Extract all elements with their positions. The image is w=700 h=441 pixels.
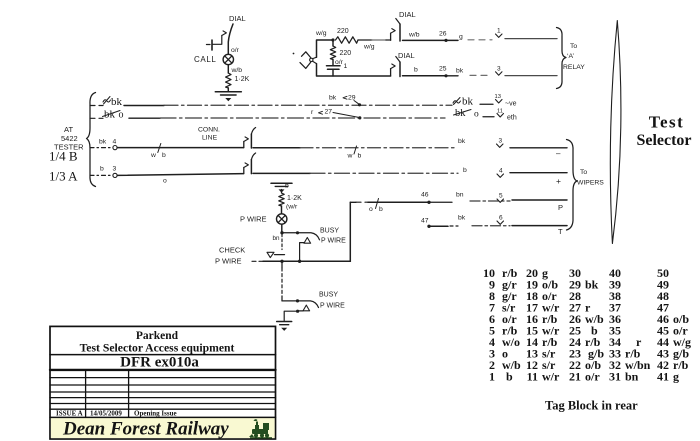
left brace AT 5422 TESTER	[87, 93, 96, 187]
lamp CALL	[223, 54, 233, 64]
row D left dashes	[90, 174, 111, 176]
row C left dashes	[90, 147, 111, 149]
svg-text:bk: bk	[99, 139, 107, 146]
svg-text:P: P	[558, 203, 563, 212]
wire to A-relay brace (row 1)	[505, 38, 557, 40]
svg-text:P WIRE: P WIRE	[215, 257, 242, 266]
svg-text:o/r: o/r	[335, 59, 344, 66]
svg-text:11: 11	[497, 109, 503, 115]
row D wire to conn-line switch	[117, 174, 243, 176]
svg-text:3: 3	[499, 138, 503, 145]
svg-text:bk: bk	[462, 96, 474, 108]
conn-line switch (row D)	[243, 168, 245, 174]
label w/b mid row C	[354, 146, 357, 154]
svg-text:Opening Issue: Opening Issue	[134, 409, 177, 417]
row B left dashes	[90, 117, 103, 119]
dashes to relay terminal 3	[470, 74, 492, 76]
svg-text:g: g	[673, 369, 679, 383]
brace to A relay	[557, 28, 567, 89]
svg-text:Selector: Selector	[636, 132, 691, 149]
row C terminal	[113, 146, 117, 150]
dashes to relay terminal 1	[468, 39, 492, 41]
wire lamp to resistor	[227, 65, 229, 73]
svg-text:Test Selector Access equipment: Test Selector Access equipment	[80, 342, 235, 355]
label o/b	[376, 199, 379, 209]
svg-text:P WIRE: P WIRE	[320, 303, 345, 310]
svg-text:21: 21	[569, 369, 581, 383]
row F wire to wipers brace	[512, 225, 567, 227]
title block frame	[50, 326, 276, 439]
page arc	[610, 21, 621, 244]
svg-text:~ve: ~ve	[505, 101, 517, 108]
svg-text:b: b	[414, 67, 418, 74]
svg-text:26: 26	[439, 31, 447, 38]
title block lines	[50, 354, 276, 356]
svg-text:220: 220	[337, 28, 349, 35]
svg-text:(w/r: (w/r	[286, 204, 298, 211]
svg-text:CALL: CALL	[194, 55, 216, 64]
svg-text:11: 11	[527, 369, 538, 383]
svg-text:w/g: w/g	[315, 30, 327, 37]
stray mark	[293, 53, 295, 55]
resistor 1.2K (p-wire)	[279, 193, 284, 206]
riser from check line to row E	[349, 202, 351, 261]
svg-text:b: b	[506, 369, 513, 383]
svg-text:DFR ex010a: DFR ex010a	[120, 354, 199, 370]
svg-text:‘A’: ‘A’	[567, 53, 575, 60]
svg-text:P WIRE: P WIRE	[321, 238, 346, 245]
lamp P WIRE	[277, 214, 287, 224]
svg-text:1·2K: 1·2K	[287, 195, 302, 202]
resistor 1.2K (call branch)	[226, 73, 231, 88]
svg-text:w/b: w/b	[231, 67, 243, 74]
svg-text:Tag Block in rear: Tag Block in rear	[545, 399, 638, 413]
svg-text:25: 25	[439, 66, 447, 73]
svg-text:WIPERS: WIPERS	[577, 180, 604, 187]
svg-text:3: 3	[497, 66, 501, 73]
svg-text:b: b	[162, 152, 166, 159]
svg-text:41: 41	[657, 369, 669, 383]
svg-text:Dean Forest Railway: Dean Forest Railway	[62, 419, 229, 440]
svg-text:bn: bn	[273, 235, 281, 242]
row B tail	[483, 116, 494, 118]
svg-text:5: 5	[499, 193, 503, 200]
row A wire	[124, 105, 164, 107]
row E wire right	[429, 201, 452, 203]
svg-text:1/3 A: 1/3 A	[49, 169, 78, 184]
svg-text:1: 1	[497, 28, 501, 35]
svg-text:bk: bk	[585, 277, 599, 291]
brace to wipers	[567, 140, 578, 231]
svg-text:4: 4	[499, 168, 503, 175]
svg-text:DIAL: DIAL	[229, 14, 246, 23]
row D wire to wipers brace	[510, 172, 567, 174]
wire resistor to lamp	[281, 206, 283, 214]
capacitor 1	[332, 60, 334, 66]
row A left dashes	[90, 105, 103, 107]
row A label bk (scribbled)	[103, 97, 111, 105]
svg-text:bn: bn	[625, 369, 639, 383]
busy p-wire contact (lower) blade	[282, 300, 297, 302]
busy p-wire contact (upper) fixed	[304, 238, 311, 244]
train logo	[249, 419, 272, 438]
svg-text:4: 4	[113, 139, 117, 146]
svg-text:LINE: LINE	[202, 135, 218, 142]
row C wire to conn-line switch	[117, 147, 243, 149]
svg-text:bk: bk	[111, 96, 123, 108]
wire contact2 to terminal 25	[403, 75, 447, 77]
svg-text:To: To	[570, 43, 577, 50]
svg-text:27: 27	[325, 109, 333, 116]
check p-wire horizontal line	[252, 260, 263, 262]
wire contact1 to terminal 26	[403, 39, 447, 41]
row E wire	[350, 201, 356, 203]
svg-text:DIAL: DIAL	[399, 10, 416, 19]
vertical wire down to lower busy contact	[281, 261, 283, 268]
svg-text:47: 47	[421, 218, 429, 225]
row C wire to wipers brace	[510, 147, 567, 149]
row D wire after switch	[253, 172, 310, 174]
dial contact 2 blade	[390, 69, 392, 76]
junction bn	[280, 231, 283, 234]
node junction	[331, 38, 334, 41]
svg-text:To: To	[580, 169, 587, 176]
ground (p-wire branch)	[271, 182, 292, 184]
svg-text:ISSUE A: ISSUE A	[56, 409, 83, 417]
wire resistor to ground	[227, 88, 229, 92]
svg-text:bk: bk	[456, 68, 464, 75]
svg-text:RELAY: RELAY	[563, 64, 585, 71]
dial contact 2 bar	[399, 62, 401, 77]
wire: dial key riser to lamp	[228, 24, 233, 55]
svg-text:31: 31	[609, 369, 621, 383]
wire lamp to junction	[281, 224, 283, 232]
svg-text:bk: bk	[458, 215, 466, 222]
conn-line switch (row C)	[243, 142, 245, 148]
row C wire after switch	[253, 147, 300, 149]
row E wire to wipers brace	[512, 199, 567, 201]
resistor 220 shunt	[332, 40, 334, 46]
svg-text:CONN.: CONN.	[198, 127, 220, 134]
key contact (CALL press button)	[211, 40, 213, 50]
wire transducer top to node	[317, 40, 334, 57]
svg-text:b: b	[358, 153, 362, 160]
svg-text:bn: bn	[456, 192, 464, 199]
svg-text:AT: AT	[64, 125, 73, 134]
svg-text:b: b	[379, 206, 383, 213]
svg-text:bk: bk	[458, 138, 466, 145]
row A tail	[480, 103, 493, 105]
row D terminal	[113, 173, 117, 177]
dial contact 1 blade	[390, 33, 392, 40]
busy p-wire contact (lower) fixed	[303, 305, 310, 311]
svg-text:Parkend: Parkend	[136, 330, 179, 342]
svg-text:3: 3	[113, 166, 117, 173]
dashed vertical to check contact	[281, 234, 283, 250]
wire resistor to dial contact 1	[358, 39, 372, 41]
svg-text:o: o	[474, 110, 479, 120]
svg-text:–: –	[556, 149, 561, 158]
svg-text:1/4 B: 1/4 B	[49, 149, 78, 164]
svg-text:w: w	[150, 152, 156, 159]
svg-text:1·2K: 1·2K	[235, 76, 250, 83]
resistor 220 horizontal	[336, 37, 359, 43]
svg-text:b: b	[100, 166, 104, 173]
svg-text:w: w	[347, 153, 353, 160]
svg-text:1: 1	[344, 63, 348, 70]
label w/b on row C	[158, 144, 161, 153]
svg-text:g: g	[459, 34, 463, 41]
dial contact 1 bar	[399, 24, 401, 41]
svg-text:Test: Test	[649, 113, 685, 132]
svg-text:w/b: w/b	[408, 32, 420, 39]
svg-text:220: 220	[340, 50, 352, 57]
svg-text:o: o	[163, 178, 167, 185]
svg-text:46: 46	[421, 192, 429, 199]
ground (busy branch)	[277, 321, 292, 323]
svg-text:b: b	[463, 167, 467, 174]
svg-text:BUSY: BUSY	[319, 292, 338, 299]
svg-text:6: 6	[499, 215, 503, 222]
title block yellow band	[51, 418, 275, 438]
wire to A-relay brace (row 2)	[505, 75, 557, 77]
svg-text:o/r: o/r	[231, 47, 240, 54]
svg-text:BUSY: BUSY	[320, 228, 339, 235]
svg-text:DIAL: DIAL	[398, 51, 415, 60]
dial transducer symbol	[302, 52, 311, 58]
svg-text:1: 1	[489, 369, 495, 383]
row A right label bk	[453, 98, 461, 105]
row B wire	[129, 117, 160, 119]
check p-wire break contact	[267, 252, 274, 257]
svg-text:14/05/2009: 14/05/2009	[90, 409, 122, 417]
svg-text:CHECK: CHECK	[219, 246, 245, 255]
svg-text:T: T	[558, 227, 563, 236]
svg-text:w/g: w/g	[363, 44, 375, 51]
bottom wire of network	[317, 64, 391, 76]
ground (call branch)	[215, 91, 241, 93]
svg-text:o: o	[369, 206, 373, 213]
svg-text:o/r: o/r	[585, 369, 600, 383]
busy p-wire contact (upper) blade	[282, 232, 297, 234]
svg-text:bk: bk	[329, 95, 337, 102]
svg-text:P WIRE: P WIRE	[240, 215, 267, 224]
row F wire	[429, 225, 448, 227]
svg-text:+: +	[556, 176, 561, 186]
svg-text:eth: eth	[507, 115, 517, 122]
svg-text:w/r: w/r	[542, 369, 560, 383]
